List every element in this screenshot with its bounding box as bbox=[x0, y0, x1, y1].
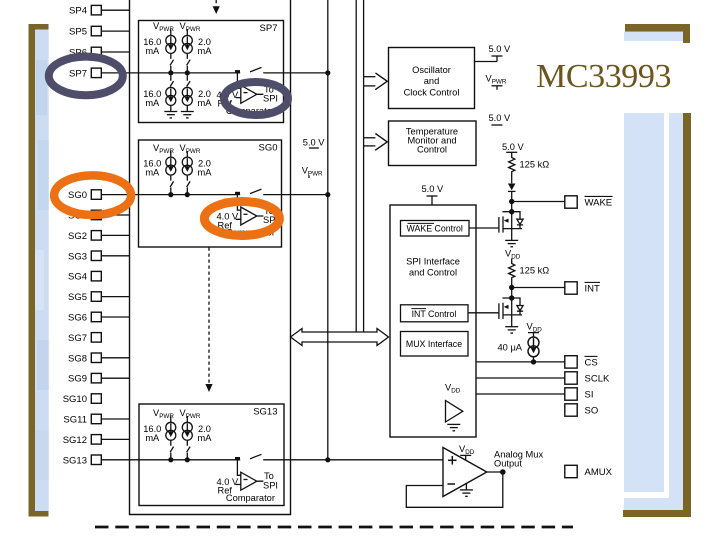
svg-text:VPWR: VPWR bbox=[153, 408, 174, 420]
node mosfet drain junction bbox=[509, 295, 514, 300]
svg-text:VPWR: VPWR bbox=[153, 143, 174, 155]
svg-text:SG11: SG11 bbox=[63, 415, 87, 426]
comparator SG13 bbox=[216, 460, 278, 503]
comparator SP7 bbox=[216, 73, 278, 116]
block SP7 bbox=[102, 21, 328, 123]
svg-text:SP4: SP4 bbox=[69, 6, 87, 17]
svg-text:SG4: SG4 bbox=[68, 272, 87, 283]
pin SCLK bbox=[565, 372, 577, 384]
wire SG5 bbox=[102, 296, 130, 298]
svg-text:125 kΩ: 125 kΩ bbox=[520, 160, 550, 170]
pin SP7 bbox=[91, 68, 101, 78]
svg-text:mA: mA bbox=[145, 46, 160, 56]
wire SP5 bbox=[102, 30, 130, 32]
right pin labels bbox=[585, 196, 613, 478]
svg-text:SG7: SG7 bbox=[68, 333, 87, 344]
pin SG8 bbox=[91, 353, 101, 363]
svg-text:SG6: SG6 bbox=[68, 313, 87, 324]
current source 16.0 mA pull-up bbox=[166, 29, 176, 75]
ground WAKE driver bbox=[505, 240, 518, 246]
wire SG0 line bbox=[102, 194, 240, 196]
pin SG10 bbox=[91, 394, 101, 404]
svg-text:5.0 V: 5.0 V bbox=[489, 44, 512, 54]
pin INT bbox=[565, 282, 577, 294]
minus input marking bbox=[448, 483, 456, 485]
wire SG9 bbox=[102, 377, 130, 379]
svg-text:VPWR: VPWR bbox=[302, 166, 323, 178]
pin SP6 bbox=[91, 47, 101, 57]
pin SG0 bbox=[91, 190, 101, 200]
svg-text:AMUX: AMUX bbox=[585, 467, 613, 478]
svg-text:INT: INT bbox=[585, 284, 601, 295]
wire output bbox=[487, 471, 503, 473]
op-amp analog mux output bbox=[406, 444, 543, 507]
block INT control bbox=[401, 305, 469, 322]
comparator SG0 bbox=[216, 195, 278, 238]
wire SCLK line bbox=[476, 377, 565, 379]
dashed arrow into SP7 bbox=[213, 0, 220, 14]
wire WAKE line bbox=[512, 201, 565, 203]
svg-text:mA: mA bbox=[145, 433, 160, 443]
wire SI line bbox=[476, 393, 565, 395]
node 5.0V label (temperature) bbox=[489, 113, 512, 125]
switch SG0 bbox=[250, 189, 262, 194]
wire VPWR bus crossing arrow bbox=[327, 331, 329, 343]
wire SP6 bbox=[102, 51, 130, 53]
outer device box bbox=[130, 0, 291, 515]
svg-text:5.0 V: 5.0 V bbox=[422, 184, 445, 194]
svg-text:and: and bbox=[424, 76, 440, 86]
wire SG11 bbox=[102, 418, 130, 420]
left pin column bbox=[63, 6, 87, 467]
svg-text:5.0 V: 5.0 V bbox=[502, 142, 525, 152]
pin AMUX bbox=[565, 465, 577, 477]
node SG0 bus junction bbox=[325, 192, 330, 197]
svg-text:SG3: SG3 bbox=[68, 251, 87, 262]
node WAKE junction bbox=[509, 199, 514, 204]
svg-text:SG13: SG13 bbox=[253, 406, 277, 417]
wire gate from WAKE control bbox=[469, 227, 499, 229]
transistor INT driver bbox=[499, 298, 523, 327]
node SG13 bus junction bbox=[325, 457, 330, 462]
svg-text:VPWR: VPWR bbox=[180, 408, 201, 420]
current source 2.0 mA pull-down bbox=[181, 76, 194, 118]
ground op-amp bbox=[465, 483, 467, 489]
svg-text:SP7: SP7 bbox=[69, 68, 87, 79]
node 5.0V rail label (center) bbox=[302, 137, 326, 178]
plus input marking bbox=[448, 459, 457, 461]
wire SG12 bbox=[102, 438, 130, 440]
node CS junction bbox=[531, 359, 536, 364]
resistor 125k (INT) bbox=[509, 259, 550, 288]
pin SP5 bbox=[91, 26, 101, 36]
bus arrow into temperature monitor bbox=[364, 134, 388, 151]
buffer amplifier bbox=[446, 401, 463, 423]
node 5.0V label (SPI block) bbox=[422, 184, 445, 205]
pin SI bbox=[565, 388, 577, 400]
svg-text:WAKE: WAKE bbox=[585, 198, 613, 209]
svg-text:mA: mA bbox=[145, 98, 160, 108]
wire SG0 to bus bbox=[263, 194, 328, 196]
node INT junction bbox=[509, 285, 514, 290]
diode (WAKE clamp) bbox=[508, 184, 516, 202]
block temperature monitor and control bbox=[389, 121, 477, 166]
wire SP4 bbox=[102, 9, 130, 11]
block SPI interface and control bbox=[390, 184, 476, 437]
pin SG7 bbox=[91, 333, 101, 343]
wire bus pair left bbox=[355, 0, 357, 332]
wire gate from INT control bbox=[468, 312, 499, 314]
svg-text:MUX Interface: MUX Interface bbox=[406, 339, 462, 349]
wire VPWR bus vertical x=327.8 bbox=[327, 0, 329, 460]
block SG13 bbox=[102, 404, 443, 506]
svg-text:SG5: SG5 bbox=[68, 292, 87, 303]
top-right corner bbox=[625, 24, 690, 32]
emphasis ellipse SG0 comparator (orange) bbox=[204, 202, 279, 236]
svg-text:mA: mA bbox=[198, 98, 213, 108]
wire SG6 bbox=[102, 316, 130, 318]
emphasis ellipse SP7 comparator (dark) bbox=[224, 82, 288, 115]
wire SG2 bbox=[102, 234, 130, 236]
pin CS bbox=[565, 356, 577, 368]
svg-text:SPI Interface: SPI Interface bbox=[406, 257, 460, 267]
svg-text:5.0 V: 5.0 V bbox=[489, 113, 512, 123]
current source 16.0 mA pull-down bbox=[164, 76, 177, 118]
pin SO bbox=[565, 404, 577, 416]
svg-text:CS: CS bbox=[585, 358, 598, 369]
node VDD label (40uA source) bbox=[527, 322, 543, 334]
pin SG13 bbox=[91, 455, 101, 465]
pin SG3 bbox=[91, 251, 101, 261]
node output junction bbox=[500, 469, 506, 475]
svg-text:INT Control: INT Control bbox=[412, 309, 457, 319]
dashed arrow SG0 to SG13 bbox=[205, 248, 212, 393]
switch SP7 bbox=[250, 67, 262, 72]
svg-text:and Control: and Control bbox=[409, 268, 457, 278]
svg-text:Oscillator: Oscillator bbox=[412, 65, 451, 75]
node VPWR label (oscillator) bbox=[486, 74, 507, 90]
node SP7 bus junction bbox=[325, 70, 330, 75]
pin SP4 bbox=[91, 5, 101, 15]
block SG0 bbox=[102, 140, 328, 247]
current source 16.0 mA pull-up bbox=[166, 151, 176, 197]
svg-text:SCLK: SCLK bbox=[585, 374, 610, 385]
svg-text:WAKE Control: WAKE Control bbox=[407, 224, 463, 234]
node 5.0V label (WAKE pull-up) bbox=[502, 142, 525, 152]
svg-text:VPWR: VPWR bbox=[180, 21, 201, 33]
svg-text:Clock Control: Clock Control bbox=[404, 88, 460, 98]
wire feedback loop bbox=[406, 472, 503, 507]
svg-text:mA: mA bbox=[145, 168, 160, 178]
svg-text:SG0: SG0 bbox=[258, 142, 277, 153]
svg-text:SG10: SG10 bbox=[63, 394, 87, 405]
pin SG5 bbox=[91, 292, 101, 302]
bus arrow double-headed (SPI) bbox=[291, 329, 389, 346]
svg-text:125 kΩ: 125 kΩ bbox=[520, 266, 550, 276]
svg-text:Output: Output bbox=[494, 459, 522, 469]
left blue panel bbox=[35, 30, 49, 512]
wire SG8 bbox=[102, 357, 130, 359]
svg-text:VDD: VDD bbox=[505, 249, 521, 261]
svg-text:VPWR: VPWR bbox=[180, 143, 201, 155]
svg-text:mA: mA bbox=[198, 168, 213, 178]
svg-text:SO: SO bbox=[585, 406, 599, 417]
wire SG3 bbox=[102, 255, 130, 257]
svg-text:SG2: SG2 bbox=[68, 231, 87, 242]
wire SG13 to op-amp bbox=[263, 459, 443, 461]
svg-text:mA: mA bbox=[198, 46, 213, 56]
current source 2.0 mA pull-up bbox=[182, 151, 192, 197]
current source 16.0 mA pull-up bbox=[166, 416, 176, 462]
wire INT line bbox=[512, 287, 565, 289]
pin SG12 bbox=[91, 435, 101, 445]
switch SG13 bbox=[250, 454, 262, 459]
pin WAKE bbox=[565, 196, 577, 208]
wire SG1 bbox=[102, 214, 130, 216]
pin SG11 bbox=[91, 414, 101, 424]
svg-text:Control: Control bbox=[417, 145, 447, 155]
svg-text:VDD: VDD bbox=[527, 322, 543, 334]
current source 2.0 mA pull-up bbox=[182, 416, 192, 462]
dashed placeholder line bottom bbox=[95, 526, 573, 529]
svg-text:VPWR: VPWR bbox=[486, 74, 507, 86]
pin SG9 bbox=[91, 373, 101, 383]
svg-text:SP7: SP7 bbox=[260, 23, 278, 34]
pin SG6 bbox=[91, 312, 101, 322]
block oscillator and clock control bbox=[389, 48, 475, 109]
node mosfet drain junction bbox=[509, 209, 514, 214]
ground INT driver bbox=[505, 327, 518, 333]
svg-text:40 μA: 40 μA bbox=[498, 343, 523, 353]
svg-text:SG0: SG0 bbox=[68, 190, 87, 201]
wire CS line bbox=[476, 361, 565, 363]
svg-text:VDD: VDD bbox=[459, 444, 475, 456]
wire bus pair right bbox=[363, 0, 365, 332]
bus arrow into oscillator bbox=[364, 73, 388, 90]
transistor WAKE driver bbox=[499, 212, 523, 241]
pin SG4 bbox=[91, 271, 101, 281]
right pin column bbox=[565, 196, 577, 478]
right blue panel bbox=[624, 113, 683, 510]
svg-text:SG12: SG12 bbox=[63, 435, 87, 446]
resistor 125k (WAKE) bbox=[509, 152, 550, 183]
svg-text:SG13: SG13 bbox=[63, 455, 87, 466]
svg-text:SG8: SG8 bbox=[68, 353, 87, 364]
pin SG2 bbox=[91, 231, 101, 241]
emphasis ellipse SP7 pin (dark) bbox=[49, 57, 123, 96]
block MUX interface bbox=[401, 332, 469, 357]
current source 2.0 mA pull-up bbox=[182, 29, 192, 75]
ground buffer bbox=[447, 424, 460, 430]
block WAKE control bbox=[401, 221, 470, 237]
wire SP7 to bus bbox=[263, 72, 328, 74]
wire SG13 line bbox=[102, 459, 240, 461]
svg-text:MC33993: MC33993 bbox=[536, 58, 671, 95]
svg-text:5.0 V: 5.0 V bbox=[303, 137, 326, 147]
emphasis ellipse SG0 pin (orange) bbox=[54, 175, 131, 215]
current source 40uA bbox=[498, 333, 539, 362]
wire oscillator 5V supply bbox=[475, 56, 503, 62]
wire junction to mosfet bbox=[511, 202, 513, 212]
svg-text:SP5: SP5 bbox=[69, 27, 87, 38]
wire SP7 line bbox=[102, 72, 240, 74]
pin SG1 bbox=[91, 210, 101, 220]
wire junction to mosfet bbox=[511, 288, 513, 299]
svg-text:SG9: SG9 bbox=[68, 374, 87, 385]
svg-text:SI: SI bbox=[585, 390, 594, 401]
svg-text:VDD: VDD bbox=[445, 383, 461, 395]
svg-text:VPWR: VPWR bbox=[153, 21, 174, 33]
svg-text:mA: mA bbox=[198, 433, 213, 443]
